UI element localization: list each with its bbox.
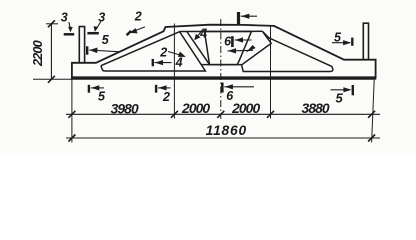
svg-text:5: 5 bbox=[102, 33, 110, 47]
svg-text:2: 2 bbox=[134, 10, 142, 24]
svg-text:3980: 3980 bbox=[111, 102, 139, 117]
callout 4 mid: bar bbox=[152, 59, 154, 66]
svg-text:2200: 2200 bbox=[30, 40, 45, 67]
wire: extension line left end bbox=[71, 79, 73, 143]
callout 5 bottom-right: leader bbox=[331, 89, 351, 91]
callout 5 bottom-left: leader bbox=[91, 87, 104, 89]
wire: pedestal shelf line bbox=[201, 64, 241, 66]
callout 5 upper-left: bar bbox=[86, 46, 88, 54]
callout 2 upper: tick bbox=[127, 31, 131, 35]
callout arrow on right strut bbox=[246, 45, 256, 53]
callout 3 right: leader bbox=[96, 22, 101, 30]
callout 6 bottom: bar bbox=[221, 83, 224, 93]
wire: extension line right end bbox=[372, 80, 375, 143]
column: left end post bbox=[79, 27, 84, 63]
callout top-center: leader bbox=[241, 15, 257, 17]
dimension: vertical 2200 line bbox=[50, 24, 52, 80]
wire: inner flat edge under apex bbox=[180, 30, 263, 32]
svg-text:5: 5 bbox=[334, 31, 342, 45]
svg-text:5: 5 bbox=[98, 89, 106, 103]
slash tick 2200 bottom bbox=[48, 76, 55, 83]
node: right long tapering web opening bbox=[242, 31, 333, 71]
node: left big web opening bbox=[101, 32, 205, 71]
svg-text:2000: 2000 bbox=[181, 101, 210, 116]
svg-text:11860: 11860 bbox=[206, 123, 247, 138]
dimension row 1 line bbox=[66, 113, 380, 115]
callout 5 upper-right: leader bbox=[332, 42, 350, 44]
callout top-center: bar bbox=[237, 12, 240, 24]
column: right end post bbox=[363, 23, 368, 60]
svg-text:4: 4 bbox=[175, 55, 183, 69]
callout 6 bottom: leader bbox=[224, 86, 254, 88]
callout 6 center: bar bbox=[231, 36, 234, 47]
svg-text:2: 2 bbox=[162, 90, 170, 104]
callout 3 left: leader bbox=[69, 22, 70, 28]
dimension row 2 line (total 11860) bbox=[66, 137, 380, 139]
callout 3 right: tick bbox=[87, 32, 98, 35]
node: central keystone opening bbox=[205, 31, 252, 64]
svg-text:3880: 3880 bbox=[302, 101, 330, 116]
dimension slash ticks row 2 bbox=[68, 135, 375, 142]
callout 6 center: lower leader bbox=[228, 49, 254, 52]
svg-text:3: 3 bbox=[98, 11, 105, 25]
wire: left thin slot second diagonal bbox=[187, 32, 210, 65]
wire: extension line at 3980 boundary bbox=[173, 24, 175, 119]
slash tick 2200 top bbox=[48, 20, 55, 27]
callout 5 upper-left: leader bbox=[89, 50, 120, 52]
wire: truss bottom chord bottom edge (thick) bbox=[71, 76, 376, 79]
callout 5 bottom-left: bar bbox=[88, 85, 90, 93]
svg-text:3: 3 bbox=[61, 11, 68, 25]
callout 2 bottom: leader bbox=[158, 87, 171, 89]
callout 5 bottom-right: bar bbox=[352, 85, 354, 95]
callout 4 apex: leader bbox=[197, 29, 204, 38]
dimension slash ticks row 1 bbox=[68, 111, 375, 118]
callout 2 bottom: bar bbox=[155, 85, 157, 93]
wire: extension line at 2000 boundary right bbox=[270, 26, 272, 119]
wire: 2200 bottom extension stub bbox=[33, 78, 72, 80]
svg-text:6: 6 bbox=[224, 35, 232, 49]
wire: 2200 top extension stub bbox=[46, 23, 58, 25]
wire: truss outer outline bbox=[72, 25, 376, 79]
callout 5 upper-right: bar bbox=[351, 38, 353, 46]
callout 6 center: upper leader bbox=[235, 39, 252, 41]
callout 4 mid: leader bbox=[155, 62, 172, 64]
callout 2 mid: leader bbox=[168, 52, 182, 56]
svg-text:5: 5 bbox=[336, 91, 344, 106]
svg-text:2: 2 bbox=[159, 46, 167, 60]
svg-text:2000: 2000 bbox=[231, 101, 260, 116]
svg-text:4: 4 bbox=[199, 27, 207, 41]
callout 2 upper: leader bbox=[133, 27, 145, 32]
callout 3 left: tick bbox=[64, 33, 74, 36]
wire: center axis line (dash-dot) bbox=[220, 19, 222, 119]
